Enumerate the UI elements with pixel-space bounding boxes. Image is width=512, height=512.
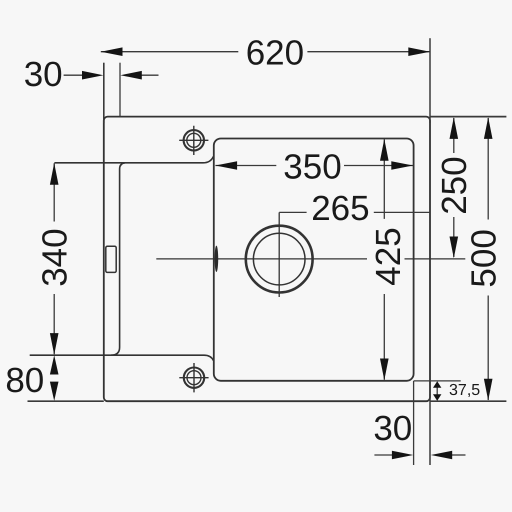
arrow 30 top pointing right [82, 71, 103, 80]
drain outer circle [246, 226, 313, 293]
arrow 500 down [484, 379, 493, 401]
ext line sink bottom to right (37,5 / 500) [430, 400, 506, 402]
svg-text:80: 80 [5, 361, 44, 400]
svg-text:350: 350 [283, 148, 341, 187]
tap hole top [179, 126, 208, 155]
dim 620 line [101, 51, 430, 53]
arrow 80 down [50, 382, 59, 401]
svg-text:425: 425 [369, 227, 408, 285]
arrow 620 right [408, 47, 430, 56]
svg-text:500: 500 [465, 229, 504, 287]
arrow 350 left [215, 161, 237, 170]
dim 265 leader [279, 211, 430, 213]
dim 250 line [453, 118, 455, 257]
dim 425 line [383, 139, 385, 379]
arrow 37,5 up [433, 381, 441, 388]
dim 37,5 connector [436, 387, 438, 395]
drain vertical centerline [278, 212, 280, 297]
svg-text:30: 30 [24, 55, 63, 94]
sink outer outline [104, 117, 430, 402]
arrow 340 down [50, 333, 59, 355]
arrow 80 up [50, 355, 59, 374]
arrow 350 right [391, 161, 413, 170]
drainboard left edge [111, 163, 125, 355]
tap hole bottom [179, 363, 208, 392]
arrow 620 left [101, 47, 123, 56]
arrow 250 up [450, 117, 459, 139]
svg-text:265: 265 [311, 189, 369, 228]
ext line bowl bottom to right (37,5) [414, 380, 461, 382]
arrow 37,5 down [433, 394, 441, 401]
ext line sink left edge up (30 top) [103, 63, 105, 123]
dim 30 top right tail [140, 74, 159, 76]
ext line sink top to right (250/500) [430, 116, 506, 118]
arrow 425 down [380, 359, 389, 381]
dim 30 bottom left tail [374, 454, 394, 456]
fixing clip rectangle on left edge [106, 246, 116, 272]
arrow 425 up [380, 139, 389, 161]
svg-text:37,5: 37,5 [449, 382, 480, 399]
dim 30 bottom right tail [450, 454, 466, 456]
ext line sink right edge up (620) [429, 38, 431, 123]
svg-text:250: 250 [435, 156, 474, 214]
svg-text:620: 620 [246, 33, 304, 72]
arrow 250 down [450, 237, 459, 259]
drain inner circle [253, 233, 305, 285]
arrow 30 bottom pointing left [431, 451, 452, 460]
arrow 30 bottom pointing right [392, 451, 413, 460]
ext line x=120 (30 top) [119, 63, 121, 117]
svg-text:30: 30 [373, 409, 412, 448]
drain horizontal centerline [156, 258, 465, 260]
svg-text:340: 340 [35, 228, 74, 286]
overflow slot lens on bowl left edge [215, 246, 219, 272]
arrow 30 top pointing left [120, 71, 141, 80]
dim 30 top left tail [64, 74, 85, 76]
dim 500 line [487, 118, 489, 400]
arrow 500 up [484, 117, 493, 139]
ext line sink right edge down (30 bottom) [429, 394, 431, 465]
bowl outline [214, 139, 414, 381]
ext line bowl right edge down (30 bottom) [413, 381, 415, 465]
ext line sink bottom to left (80) [28, 400, 104, 402]
dim 340 line [53, 163, 55, 354]
drainboard bottom edge line [30, 355, 214, 360]
dim 350 line [215, 165, 413, 167]
drainboard top edge line [54, 156, 213, 162]
arrow 340 up [50, 163, 59, 185]
